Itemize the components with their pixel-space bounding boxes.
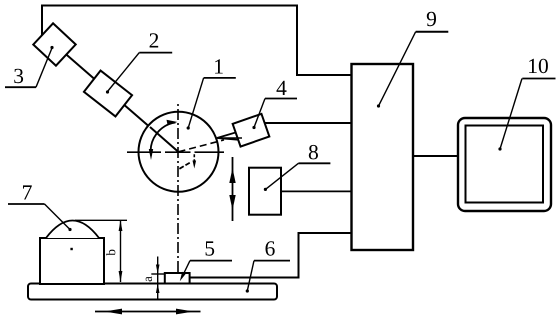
label 4 bbox=[277, 81, 287, 95]
wire beam inside circle bbox=[150, 127, 179, 152]
wire 9 down to sample holder 5 bbox=[190, 233, 352, 278]
wire detector 4 to controller 9 bbox=[265, 122, 352, 124]
base 7 (dome box) bbox=[40, 238, 104, 284]
box 2 (collimator) bbox=[84, 71, 132, 117]
label 5 bbox=[206, 241, 215, 255]
wire diffracted beam (dashed) to detector 4 bbox=[179, 140, 225, 152]
node left-right motion arrow bbox=[95, 311, 201, 313]
node up-down motion arrow bbox=[232, 157, 234, 221]
sample holder 5 bbox=[165, 273, 190, 284]
label 1 bbox=[215, 59, 223, 73]
stage 6 (base bar) bbox=[28, 284, 277, 300]
monitor 10 bbox=[458, 118, 551, 211]
rotation arrow arc on circle 1 bbox=[151, 123, 176, 156]
label 7 bbox=[23, 185, 32, 199]
label 10 bbox=[529, 59, 548, 73]
label 6 bbox=[266, 241, 275, 255]
dimension b bbox=[75, 219, 127, 221]
wire 9 to monitor 10 bbox=[413, 155, 458, 157]
node theta angle marks bbox=[179, 162, 190, 169]
box 3 (X-ray source) bbox=[33, 23, 75, 65]
node 1: sample circle bbox=[139, 112, 219, 192]
label 9 bbox=[427, 12, 436, 26]
label 8 bbox=[309, 145, 318, 160]
label 3 bbox=[14, 69, 23, 83]
box 8 bbox=[249, 168, 281, 215]
box 9 (controller) bbox=[352, 64, 414, 250]
detector 4 (rotated box with funnel) bbox=[217, 131, 242, 140]
wire horizontal centerline of circle bbox=[127, 151, 161, 153]
wire beam axis from 3 through 2 to circle 1 center bbox=[55, 44, 179, 152]
wire 8 to 9 bbox=[281, 190, 352, 192]
dimension a bbox=[157, 257, 159, 299]
wire vertical centerline (dash-dot) bbox=[177, 102, 179, 273]
wire from source 3 to controller 9 (top path) bbox=[42, 6, 352, 76]
label 2 bbox=[150, 33, 159, 47]
